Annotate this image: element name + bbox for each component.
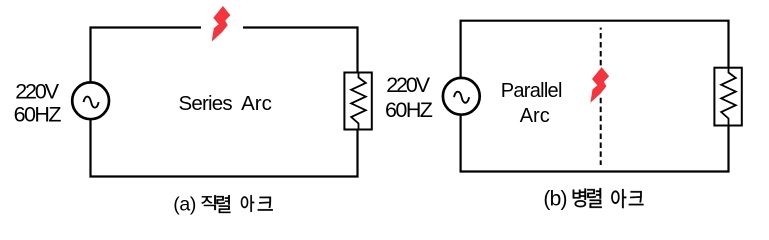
wire: left circuit (a) loop, top wire broken by series arc gap: [91, 28, 358, 177]
caption (a) hangul 렬: [217, 195, 231, 213]
AC source V2 circle: [443, 78, 480, 115]
AC source V1 circle: [72, 82, 109, 119]
caption (a) hangul 아: [241, 195, 254, 212]
resistor R1 zigzag: [351, 73, 366, 130]
caption (b) hangul 아: [611, 189, 626, 208]
svg-text:Parallel: Parallel: [501, 80, 562, 102]
svg-text:220V: 220V: [15, 79, 60, 103]
svg-text:Series: Series: [179, 92, 233, 115]
svg-text:(b): (b): [543, 188, 566, 211]
parallel arc dashed line (below bolt): [600, 98, 602, 165]
caption (a) hangul 크: [258, 197, 273, 211]
caption (a) hangul 직: [201, 195, 215, 210]
svg-text:220V: 220V: [386, 73, 431, 97]
caption (b) hangul 렬: [587, 188, 602, 208]
svg-text:60HZ: 60HZ: [385, 98, 433, 122]
arc fault symbol: series arc bolt (red): [212, 6, 231, 42]
svg-text:60HZ: 60HZ: [14, 103, 62, 127]
svg-text:Arc: Arc: [241, 92, 272, 115]
wire: right circuit (b) loop: [461, 21, 729, 172]
svg-text:(a): (a): [173, 193, 196, 215]
resistor R2 load box: [714, 68, 741, 126]
arc fault symbol: parallel arc bolt (red): [590, 67, 609, 103]
resistor R2 zigzag: [721, 68, 736, 126]
AC source V1 sine wave: [84, 97, 99, 108]
svg-text:Arc: Arc: [520, 105, 550, 127]
AC source V2 sine wave: [454, 92, 469, 103]
caption (b) hangul 병: [573, 188, 586, 207]
resistor R1 load box: [344, 73, 371, 130]
caption (b) hangul 크: [629, 191, 644, 205]
parallel arc fault path: vertical dashed line: [600, 28, 602, 66]
